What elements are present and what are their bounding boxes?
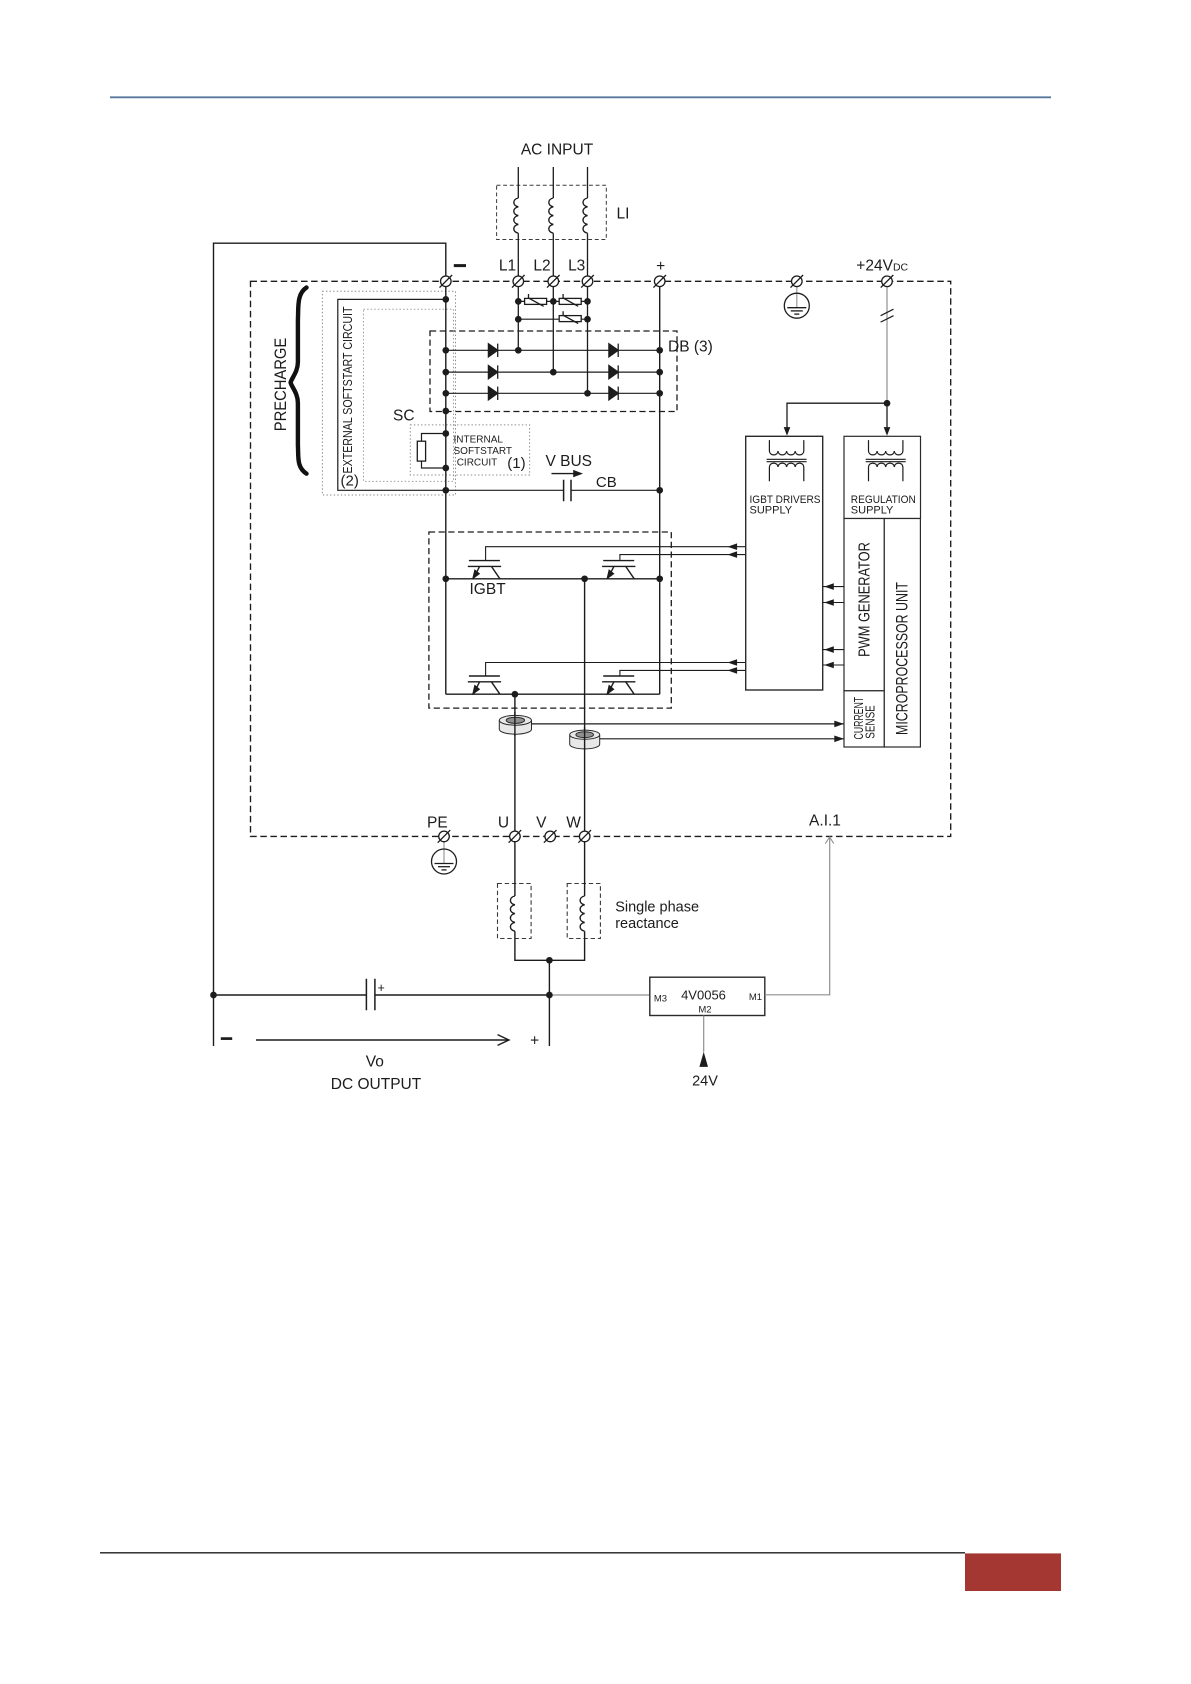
PWM arrowhead 4 [824,662,834,669]
wire DC output with capacitor [214,994,550,996]
single phase reactance dashed box W [567,884,600,939]
svg-text:PWM GENERATOR: PWM GENERATOR [857,542,874,657]
diode D6 [609,387,618,400]
svg-text:CB: CB [596,474,617,491]
wire internal softstart resistor branch [422,434,446,469]
wire DC output positive tail [548,960,550,1046]
node L1 rectifier [515,347,522,354]
diode D3 [488,365,497,378]
reactance coil W [580,896,585,931]
earth stem PE [443,842,445,864]
node plus IGBT rail [656,575,663,582]
wire current sense 2 [600,738,844,740]
svg-text:LI: LI [617,206,630,223]
inductor LI coil phase 2 [549,198,554,233]
interface module 4V0056 box [650,977,765,1015]
node resistor bottom [442,465,449,472]
node phase W midpoint [581,575,588,582]
earth stem top [796,287,798,308]
label output minus [221,1037,232,1040]
node plus row2 [656,369,663,376]
wire PWM to drivers 4 [823,664,844,666]
supply feed arrowhead right [884,427,891,436]
transistor Q4 bottom-right IGBT [602,676,635,695]
svg-text:Vo: Vo [366,1054,384,1071]
svg-text:SENSE: SENSE [862,705,877,739]
node L1 varistor row1 [515,298,522,305]
transistor Q1 top-left IGBT [468,561,501,580]
node 24V branch [884,400,891,407]
wire phase W [549,579,584,961]
supply feed arrowhead left [784,427,791,436]
wire +24V branch to supplies [787,403,887,429]
wire V BUS link with capacitor CB [446,489,660,491]
wire positive bus [659,287,661,695]
node plus CB [656,487,663,494]
wire IGBT top rail [446,578,660,580]
diode D4 [609,365,618,378]
ground protective earth symbol top [784,293,809,318]
terminal V [544,830,557,843]
svg-text:+: + [530,1033,539,1050]
svg-text:M3: M3 [654,994,667,1005]
node DC output left [210,992,217,999]
wire rectifier row 2 [446,371,660,373]
svg-text:V BUS: V BUS [546,453,593,470]
svg-text:SUPPLY: SUPPLY [851,505,894,517]
double slash on +24V line [881,309,894,322]
node L2 varistor row1 [550,298,557,305]
svg-text:(2): (2) [341,473,359,490]
capacitor CB [564,480,571,502]
svg-text:EXTERNAL SOFTSTART CIRCUIT: EXTERNAL SOFTSTART CIRCUIT [341,306,355,473]
IGBT drivers supply box U2 [746,436,823,690]
svg-text:L2: L2 [533,258,550,275]
terminal PE [438,830,451,843]
node plus row3 [656,390,663,397]
wire current sense 1 [532,723,844,725]
external softstart circuit outer dotted box (2) [322,291,455,495]
precharge brace [291,288,307,474]
svg-text:A.I.1: A.I.1 [809,813,841,830]
wire negative DC loop to output [214,243,446,1046]
wire external softstart loop [338,299,446,490]
svg-text:24V: 24V [692,1074,718,1090]
wire node to M3 [549,994,649,996]
PWM arrowhead 2 [824,599,834,606]
wire IGBT bottom rail [446,693,660,695]
svg-text:L3: L3 [568,258,585,275]
svg-text:M1: M1 [749,992,762,1003]
terminal earth top [791,275,804,288]
svg-text:CIRCUIT: CIRCUIT [457,458,498,469]
wire varistor row 1 [518,300,587,302]
svg-text:W: W [566,815,581,832]
svg-text:MICROPROCESSOR UNIT: MICROPROCESSOR UNIT [892,582,911,735]
svg-text:+: + [378,981,385,995]
diode D1 [488,344,497,357]
PWM arrowhead 3 [824,646,834,653]
current sensor toroid T2 [570,727,600,750]
terminal L1 [512,275,525,288]
terminal +24VDC [881,275,894,288]
external softstart inner dotted box [364,309,454,481]
node phase U midpoint [512,691,519,698]
wire M2 24V feed [703,1016,705,1053]
diode D2 [609,344,618,357]
PWM arrowhead 1 [824,583,834,590]
enclosure A.I.1 dashed box [251,281,951,836]
svg-text:Single phase: Single phase [615,900,699,916]
terminal L2 [547,275,560,288]
current sense arrowhead 2 [834,736,844,743]
svg-text:L1: L1 [499,258,516,275]
wire gate drive 4 [620,670,746,676]
node L3 varistor row2 [584,316,591,323]
svg-text:SOFTSTART: SOFTSTART [454,446,513,457]
wire rectifier row 1 [446,349,660,351]
wire PWM to drivers 3 [823,649,844,651]
node minus CB [442,487,449,494]
node minus row3 [442,390,449,397]
varistor L2-L3 [559,294,581,306]
varistor L1-L2 [525,294,547,306]
svg-text:DB (3): DB (3) [668,339,713,356]
gate drive arrowhead 4 [728,667,738,674]
svg-text:+: + [656,258,665,275]
wire PWM to drivers 1 [823,586,844,588]
wire varistor row 2 [518,318,587,320]
gate drive arrowhead 2 [728,551,738,558]
IGBT bridge dashed box [429,532,671,708]
current sensor toroid T1 [499,712,531,736]
transformer regulation supply [866,440,906,481]
ground protective earth symbol PE [432,849,457,874]
node L3 varistor row1 [584,298,591,305]
gate drive arrowhead 1 [728,543,738,550]
svg-text:SUPPLY: SUPPLY [750,505,793,517]
wire phase U [515,694,550,960]
transistor Q3 bottom-left IGBT [468,676,501,695]
terminal plus [653,275,666,288]
internal softstart circuit dotted box (1) [410,425,529,475]
diode D5 [488,387,497,400]
node DC output right [546,992,553,999]
svg-text:U: U [498,815,509,832]
V BUS arrow [552,470,584,477]
DC output polarity arrow [256,1035,509,1046]
wire gate drive 3 [486,663,746,677]
svg-text:reactance: reactance [615,916,679,932]
varistor L1-L3 [559,311,581,323]
node minus DB bottom [442,408,449,415]
page footer rule [100,1552,965,1554]
node plus row1 [656,347,663,354]
transistor Q2 top-right IGBT [602,561,635,580]
A.I.1 arrowhead [825,837,833,844]
PWM generator box U4 [844,519,884,691]
24V arrowhead [699,1052,708,1067]
node minus loop top [442,296,449,303]
node L1 varistor row2 [515,316,522,323]
regulation supply box U3 [844,436,921,518]
microprocessor unit box U6 [884,519,920,748]
node L3 rectifier [584,390,591,397]
svg-text:AC INPUT: AC INPUT [521,141,594,158]
node UW join [546,957,553,964]
terminal W [578,830,591,843]
terminal L3 [581,275,594,288]
label minus terminal [454,264,466,267]
node resistor top [442,430,449,437]
svg-text:IGBT: IGBT [470,581,507,598]
wire M1 to A.I.1 [765,838,830,995]
current sense box U5 [844,691,884,747]
reactance coil U [510,896,515,931]
wire rectifier row 3 [446,392,660,394]
transformer IGBT drivers supply [767,440,807,481]
svg-text:DC OUTPUT: DC OUTPUT [331,1076,422,1093]
resistor SC softstart [417,441,425,461]
node minus IGBT rail [442,575,449,582]
gate drive arrowhead 3 [728,659,738,666]
svg-text:INTERNAL: INTERNAL [454,434,504,445]
page header rule [110,96,1051,98]
wire +24VDC feed [886,287,888,404]
wire PWM to drivers 2 [823,602,844,604]
wire AC input L1 drop [517,167,519,350]
svg-text:V: V [536,815,547,832]
inductor LI coil phase 1 [514,198,519,233]
node minus row1 [442,347,449,354]
node minus row2 [442,369,449,376]
wire AC input L3 drop [587,167,589,393]
wire negative bus [445,287,447,695]
svg-text:(1): (1) [507,455,525,472]
line inductor LI dashed box [497,185,607,239]
single phase reactance dashed box U [498,884,532,939]
svg-text:M2: M2 [698,1005,711,1016]
svg-text:SC: SC [393,408,415,425]
footer page-number block [965,1553,1061,1591]
svg-text:4V0056: 4V0056 [681,988,726,1003]
wire gate drive 2 [620,555,746,561]
svg-text:PE: PE [427,815,448,832]
terminal U [509,830,522,843]
capacitor DC output [366,979,375,1010]
current sense arrowhead 1 [834,721,844,728]
rectifier DB dashed box [430,331,677,412]
wire AC input L2 drop [552,167,554,372]
wire gate drive 1 [486,547,746,561]
svg-text:PRECHARGE: PRECHARGE [272,338,290,432]
terminal minus [440,275,453,288]
inductor LI coil phase 3 [583,198,588,233]
node L2 rectifier [550,369,557,376]
